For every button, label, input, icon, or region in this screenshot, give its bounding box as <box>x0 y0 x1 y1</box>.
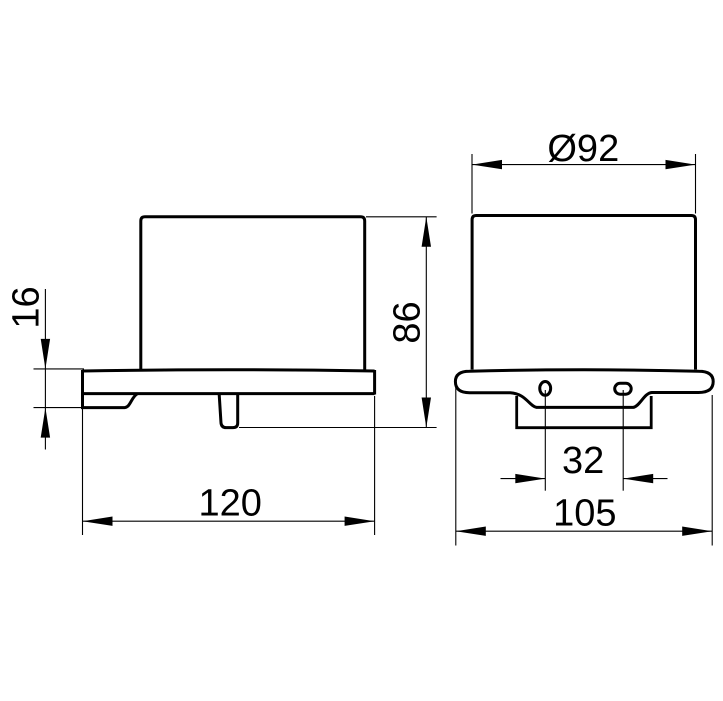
dimension 32 arrows <box>515 474 545 483</box>
dimension 86 extension lines <box>239 217 437 428</box>
dimension 86 arrows <box>422 217 431 247</box>
dimension 120 line <box>83 520 375 522</box>
dimension 16 arrows <box>41 339 50 369</box>
cup body (front view) <box>472 216 695 370</box>
dimension 32 extension lines <box>501 390 668 491</box>
shelf / holder plate (side view) <box>83 370 375 408</box>
svg-text:120: 120 <box>198 482 261 524</box>
right mounting hole (horizontal slot) <box>615 383 632 394</box>
dimension 120 extension lines <box>83 396 375 535</box>
svg-text:105: 105 <box>553 492 616 534</box>
svg-text:32: 32 <box>562 440 604 482</box>
dimension 105 arrows <box>456 527 486 536</box>
dimension Ø92 line <box>472 164 696 166</box>
dimension 16 extension lines <box>34 289 85 450</box>
mounting peg (side view) <box>219 395 238 428</box>
dimension 105 extension lines <box>456 385 712 546</box>
svg-text:86: 86 <box>386 301 428 343</box>
wall mounting plate (front view) <box>517 396 652 428</box>
dimension 120 arrows <box>83 517 113 526</box>
svg-text:Ø92: Ø92 <box>547 128 619 170</box>
left mounting hole (vertical slot) <box>540 382 551 396</box>
dimension 105 line <box>456 530 712 532</box>
svg-text:16: 16 <box>6 286 48 328</box>
holder flange bar (front view) <box>455 370 713 408</box>
cup body (side view) <box>141 217 365 370</box>
dimension Ø92 arrows <box>472 160 502 169</box>
dimension Ø92 extension lines <box>472 154 696 214</box>
dimension 32 line tails <box>501 478 546 480</box>
dimension 16 line <box>44 289 46 450</box>
dimension 86 line <box>425 217 427 428</box>
